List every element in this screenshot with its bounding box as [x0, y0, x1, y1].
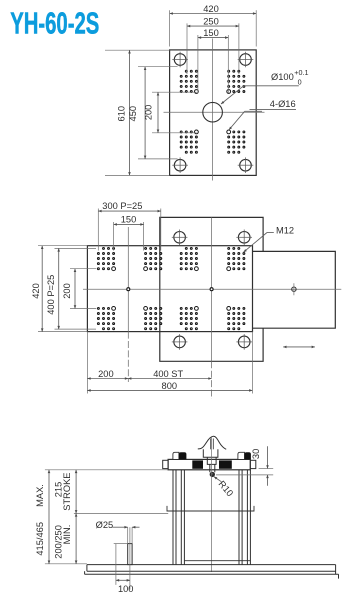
mounting hole grid bottom-right — [227, 130, 246, 154]
dim 450 — [128, 67, 178, 159]
platen band (plan view) — [87, 246, 252, 332]
ejector rod — [128, 544, 132, 565]
nozzle center mark — [292, 283, 296, 295]
mounting hole grid bottom 2 (plan) — [144, 307, 163, 331]
horizontal center line — [164, 111, 265, 113]
tie bars left (side view) — [173, 470, 184, 565]
dim Ø25 — [96, 520, 140, 544]
mounting hole grid top 2 (plan) — [144, 247, 163, 271]
right tie-bar nut (black) — [245, 452, 251, 459]
mounting hole grid bottom 4 (plan) — [227, 307, 246, 331]
dim 200 (bottom plan) — [87, 332, 128, 394]
machine base plate — [85, 565, 339, 579]
label Ø100 +0.1/0 with leader — [221, 68, 309, 104]
dim 420 (plan left) — [31, 246, 87, 332]
mounting hole grid top-right — [227, 70, 246, 94]
dim 200/250 MIN. — [54, 513, 77, 563]
dim 400 P=25 — [46, 248, 96, 329]
label M12 with leader — [244, 226, 295, 253]
mounting hole grid bottom 3 (plan) — [180, 307, 199, 331]
svg-text:420: 420 — [31, 283, 41, 299]
dim 30 — [216, 446, 273, 485]
svg-text:R10: R10 — [216, 479, 235, 498]
svg-text:STROKE: STROKE — [62, 472, 72, 510]
dim 200 (vertical) — [143, 92, 196, 133]
node on center line (left platen) — [127, 288, 130, 291]
svg-text:415/465: 415/465 — [35, 522, 45, 556]
dim 610 (left) — [105, 50, 170, 175]
mounting hole grid top 4 (plan) — [227, 247, 246, 271]
dim 400 ST — [128, 369, 212, 379]
tie-bar nut bottom-right — [236, 334, 252, 350]
svg-text:+0.1: +0.1 — [294, 68, 308, 77]
svg-text:Ø100: Ø100 — [271, 72, 294, 82]
nozzle tip ball — [210, 472, 215, 477]
svg-text:Ø25: Ø25 — [96, 520, 114, 530]
horizontal center line (plan) — [83, 288, 341, 290]
tie-bar nut top-left — [172, 230, 188, 246]
moving platen center line — [127, 227, 129, 332]
dim 200 (plan) — [62, 269, 96, 309]
mounting hole grid top-left — [180, 70, 199, 94]
dim 800 — [87, 332, 252, 394]
svg-text:150: 150 — [121, 215, 137, 225]
nozzle inner lines — [211, 439, 214, 450]
fixed platen (tall rect, plan view) — [160, 217, 263, 361]
svg-text:450: 450 — [128, 106, 138, 122]
svg-text:300 P=25: 300 P=25 — [102, 201, 142, 211]
lower platen line — [184, 560, 250, 562]
dim 150 (plan) — [114, 215, 144, 251]
svg-text:MAX.: MAX. — [35, 484, 45, 507]
svg-text:250: 250 — [203, 17, 219, 27]
label 4-Ø16 with leader — [229, 99, 296, 130]
svg-text:200: 200 — [143, 105, 153, 121]
svg-text:610: 610 — [117, 106, 127, 122]
section fill right — [219, 460, 232, 468]
tie-bar hole top-right — [238, 52, 254, 68]
dim 100 — [114, 544, 134, 594]
mounting hole grid bottom-left — [180, 130, 199, 154]
svg-text:420: 420 — [203, 4, 219, 14]
right end tab — [250, 460, 256, 468]
svg-text:30: 30 — [251, 449, 261, 459]
section fill left — [192, 460, 203, 468]
nozzle barrel — [203, 449, 218, 457]
svg-text:M12: M12 — [276, 226, 294, 236]
mounting hole grid top 3 (plan) — [180, 247, 199, 271]
dim 250 — [187, 17, 239, 74]
machine center line — [211, 217, 213, 361]
svg-text:150: 150 — [203, 28, 219, 38]
ejector rod center line — [129, 527, 131, 589]
dim 420 (top) — [170, 4, 257, 46]
svg-text:400 P=25: 400 P=25 — [46, 275, 56, 315]
svg-text:0: 0 — [298, 78, 302, 87]
locating ring circle — [203, 102, 223, 122]
dim 150 — [198, 28, 228, 93]
left tie-bar cap (white) — [173, 452, 179, 459]
svg-text:100: 100 — [118, 584, 134, 594]
machine vertical center line — [211, 437, 213, 572]
svg-text:200: 200 — [98, 369, 114, 379]
svg-text:800: 800 — [162, 381, 178, 391]
platen outline (front view) — [170, 50, 257, 175]
svg-text:MIN.: MIN. — [62, 525, 72, 545]
svg-text:YH-60-2S: YH-60-2S — [10, 5, 99, 40]
tie-bar hole bottom-left — [172, 157, 188, 173]
dim 415/465 MAX. — [35, 470, 168, 564]
right tie-bar cap (white) — [238, 452, 245, 459]
tie-bar hole top-left — [172, 52, 188, 68]
svg-text:200: 200 — [62, 283, 72, 299]
label R10 with leader — [214, 477, 235, 499]
tie bars right (side view) — [239, 470, 250, 565]
svg-text:4-Ø16: 4-Ø16 — [270, 99, 296, 109]
tie-bar hole bottom-right — [238, 157, 254, 173]
min position extension line — [74, 512, 168, 514]
vertical center line — [212, 39, 214, 181]
tie-bar nut bottom-left — [172, 334, 188, 350]
moving platen min position bracket — [167, 506, 254, 511]
dim 215 STROKE — [54, 470, 77, 514]
mounting hole grid top 1 (plan) — [97, 247, 116, 271]
left tie-bar nut (black) — [179, 452, 187, 459]
injection side block — [253, 251, 336, 328]
nozzle step — [207, 457, 216, 472]
mounting hole grid bottom 1 (plan) — [97, 307, 116, 331]
dim 300 P=25 — [98, 201, 161, 250]
stroke direction arrow — [283, 346, 315, 348]
svg-text:400 ST: 400 ST — [153, 369, 183, 379]
injection barrel break line — [198, 436, 226, 449]
fixed platen bar (side view) — [168, 459, 250, 469]
tie-bar nut top-right — [236, 230, 252, 246]
left end tab — [163, 460, 168, 468]
node on center line (machine center) — [210, 288, 213, 291]
